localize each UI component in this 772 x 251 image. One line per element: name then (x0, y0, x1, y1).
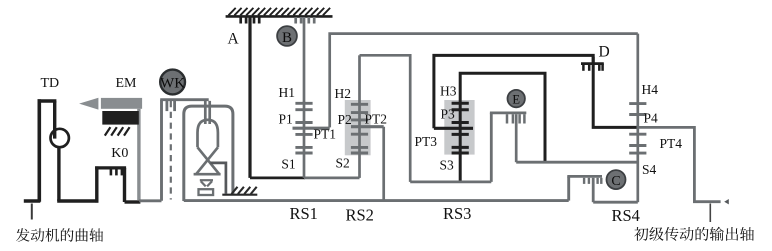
svg-text:P1: P1 (279, 112, 293, 127)
gearset RS3 shaded box (444, 100, 474, 155)
torsional damper TD (38, 99, 69, 202)
svg-text:RS4: RS4 (612, 206, 640, 225)
brake C circle (607, 170, 626, 189)
output shaft main line (184, 199, 569, 202)
svg-text:EM: EM (116, 76, 138, 91)
brake D plates (581, 64, 604, 71)
wire C to RS4 bottom (593, 201, 638, 204)
svg-text:RS3: RS3 (443, 204, 471, 223)
wire EM/WK bottom link (139, 199, 161, 202)
input shaft tick (31, 204, 33, 220)
planetary gearset RS3 (459, 103, 462, 109)
svg-text:E: E (512, 92, 520, 106)
svg-text:S1: S1 (281, 157, 295, 172)
gearset RS2 shaded box (345, 100, 371, 155)
svg-text:A: A (228, 30, 240, 47)
turbine/impeller bell (194, 101, 221, 174)
svg-text:P3: P3 (441, 107, 456, 122)
wire PT2 to output shaft line (382, 127, 385, 201)
transmission housing top (226, 8, 333, 17)
wire brake A to S1 (250, 17, 305, 178)
lockup clutch WK plates (160, 100, 209, 201)
electric machine EM (79, 98, 142, 200)
label engine crankshaft (Chinese) (16, 228, 103, 242)
svg-text:PT2: PT2 (365, 112, 388, 127)
svg-text:S3: S3 (440, 157, 455, 172)
svg-text:S4: S4 (642, 162, 657, 177)
wire PT1 riser (330, 34, 638, 128)
wire H2/S3 node (410, 180, 491, 183)
svg-text:WK: WK (160, 75, 185, 91)
crankshaft line TD to K0 (57, 199, 98, 203)
wire D to RS4 (593, 57, 638, 128)
svg-text:H2: H2 (335, 86, 352, 101)
brake B circle (277, 26, 297, 46)
wire S1-S2 (304, 176, 360, 179)
svg-text:C: C (611, 174, 620, 189)
lockup clutch WK circle (160, 70, 185, 95)
svg-text:D: D (599, 43, 610, 60)
svg-text:RS2: RS2 (346, 206, 374, 225)
wire PT3 outer loop to D (434, 55, 593, 128)
brake A plates (241, 17, 260, 24)
svg-text:PT4: PT4 (660, 136, 683, 151)
clutch E circle (508, 90, 525, 107)
stator output funnel (200, 180, 213, 186)
planetary gearset RS1 (303, 102, 306, 110)
svg-text:K0: K0 (111, 146, 128, 161)
svg-text:PT3: PT3 (415, 134, 438, 149)
svg-text:S2: S2 (336, 156, 350, 171)
wire H2 loop (360, 55, 411, 182)
svg-text:TD: TD (41, 76, 60, 91)
svg-text:H1: H1 (279, 85, 296, 100)
svg-text:P4: P4 (644, 111, 659, 126)
engine crankshaft input line (24, 199, 41, 203)
brake C plates (567, 176, 602, 202)
torque converter housing shell (184, 106, 233, 201)
label primary drive output shaft (Chinese) (634, 227, 754, 241)
output shaft tick (709, 204, 711, 223)
turbine shaft dashed line (170, 101, 172, 200)
turbine output pedestal (199, 189, 214, 195)
wire E/S4 (516, 161, 638, 164)
svg-text:PT1: PT1 (314, 127, 337, 142)
stator ground hatch (222, 187, 257, 195)
stator one-way clutch link (210, 163, 226, 194)
svg-text:H4: H4 (642, 82, 659, 97)
svg-text:H3: H3 (440, 84, 457, 99)
svg-text:P2: P2 (338, 112, 352, 127)
clutch E plates (490, 113, 526, 182)
clutch K0 (95, 166, 140, 202)
planetary gearset RS2 (358, 55, 361, 112)
planetary gearset RS4 (629, 34, 646, 203)
output shaft break arrow (724, 199, 729, 204)
svg-text:RS1: RS1 (290, 204, 318, 223)
wire PT4 output (638, 127, 721, 201)
brake B plates (296, 17, 315, 24)
wire brake B to H1 (303, 17, 306, 103)
wire H3 inner loop to E (460, 73, 545, 162)
svg-text:B: B (282, 30, 292, 46)
